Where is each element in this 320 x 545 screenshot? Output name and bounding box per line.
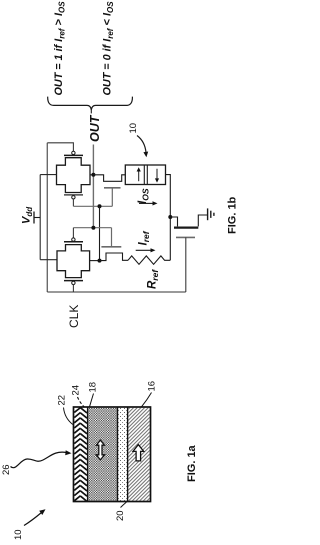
- svg-text:16: 16: [147, 381, 158, 392]
- wire node B column: [99, 206, 101, 260]
- pinned layer arrow: [133, 445, 144, 461]
- wire N3 drain to ground: [198, 215, 207, 226]
- leader 18: [90, 394, 94, 407]
- leader 22: [64, 408, 73, 425]
- node OUT label: [88, 114, 102, 142]
- magnetic junction device box: [125, 165, 165, 185]
- node D junction dot: [168, 215, 172, 219]
- layer boundary 18/20: [117, 407, 119, 502]
- annotation OUT=1 condition: [53, 1, 67, 96]
- gate bar N2: [101, 246, 121, 248]
- gate bubble P2 top: [72, 238, 75, 241]
- wire CLK to P1 top gate: [47, 143, 73, 151]
- wire N3 gate stem to CLK rail: [185, 237, 187, 292]
- svg-text:10: 10: [128, 123, 139, 134]
- stack outer border: [74, 407, 151, 502]
- svg-text:22: 22: [57, 395, 68, 406]
- bottom CLK rail: [47, 291, 186, 293]
- gate bar P2 bottom: [64, 280, 83, 282]
- cross transistor pair P2: [57, 245, 90, 278]
- svg-text:FIG. 1a: FIG. 1a: [186, 444, 198, 482]
- leader 10 arrow: [24, 513, 42, 526]
- wire P1 drain arm to node A: [90, 174, 93, 176]
- label 20: [115, 510, 126, 521]
- label CLK: [67, 305, 81, 328]
- wire device to sense node: [166, 175, 171, 261]
- wire N2 gate stem: [111, 228, 113, 246]
- wire CLK vertical rail: [46, 143, 48, 292]
- layer boundary 22/18: [87, 407, 89, 502]
- resistor Rref zigzag: [128, 256, 170, 264]
- device pinned layer arrow (down): [156, 169, 158, 181]
- cross transistor pair P1: [57, 158, 91, 193]
- arrow Iref: [136, 249, 153, 251]
- layer 22 hatched region: [74, 408, 87, 501]
- leader 10 to device: [137, 136, 146, 153]
- leader 26 squiggle arrow: [11, 452, 67, 468]
- gate bubble P1 bottom: [72, 196, 75, 199]
- label 10 (device): [128, 123, 139, 134]
- svg-text:26: 26: [1, 464, 12, 475]
- wire P1 bottom gate to node B: [72, 199, 74, 206]
- svg-text:FIG. 1b: FIG. 1b: [227, 196, 239, 234]
- brace: [48, 97, 133, 110]
- Vdd terminal bar: [33, 212, 35, 224]
- free layer double arrow: [96, 440, 104, 460]
- wire node A to N1 channel: [93, 175, 125, 182]
- svg-text:CLK: CLK: [67, 305, 81, 328]
- transistor N3 gate bar: [176, 236, 195, 238]
- wire N1 gate stem: [111, 188, 113, 207]
- node A junction dot: [91, 173, 95, 177]
- arrow IOS: [139, 202, 155, 204]
- svg-text:OUT = 0 if Iref < IOS: OUT = 0 if Iref < IOS: [102, 1, 116, 96]
- svg-text:OUT = 1 if Iref > IOS: OUT = 1 if Iref > IOS: [53, 1, 67, 96]
- label Rref: [147, 269, 161, 289]
- label 26: [1, 464, 12, 475]
- wire node A2 horizontal (cross-couple to P2 gates): [73, 227, 111, 229]
- leader 24 dashed: [78, 397, 85, 407]
- label 16: [147, 381, 158, 392]
- gate bar N1: [104, 187, 121, 189]
- leader 16: [142, 393, 152, 407]
- node C junction dot: [98, 259, 102, 263]
- wire P2 source arm: [40, 259, 57, 261]
- node B junction dot: [98, 204, 102, 208]
- svg-text:24: 24: [71, 385, 82, 396]
- label 18: [88, 382, 99, 393]
- annotation OUT=0 condition: [102, 1, 116, 96]
- leader 20: [121, 502, 127, 508]
- Vdd terminal tick: [34, 217, 40, 219]
- label Vdd: [21, 206, 35, 224]
- svg-text:OUT: OUT: [88, 114, 102, 142]
- label IOS: [137, 188, 151, 204]
- transistor N3 channel bar: [174, 227, 198, 229]
- layer 18 stipple region: [88, 408, 117, 501]
- svg-text:10: 10: [13, 529, 24, 540]
- wire P1 source arm: [40, 174, 56, 176]
- gate bar P2 top: [64, 241, 83, 243]
- layer 20 sparse region: [118, 408, 127, 501]
- label 24: [71, 385, 82, 396]
- layer 16 hatch region: [128, 408, 149, 501]
- label FIG. 1b: [227, 196, 239, 234]
- gate bar P1 top: [64, 154, 83, 156]
- wire P2 bottom gate to CLK rail: [72, 285, 74, 292]
- label 22: [57, 395, 68, 406]
- device inner layer lines: [144, 165, 147, 185]
- wire node C to N2 channel to resistor: [100, 253, 129, 261]
- wire P2 drain arm: [90, 260, 100, 262]
- wire node B horizontal: [73, 205, 112, 207]
- wire P2 top gate riser: [72, 228, 74, 238]
- wire OUT column: [92, 145, 94, 228]
- label FIG. 1a: [186, 444, 198, 482]
- transistor N3 source wire: [170, 217, 177, 226]
- label Iref: [138, 230, 152, 245]
- layer boundary 20/16: [127, 407, 129, 502]
- label 10 (stack): [13, 529, 24, 540]
- device free layer arrow (up): [138, 170, 140, 182]
- gate bubble P2 bottom: [72, 281, 75, 284]
- ground symbol: [207, 208, 209, 220]
- gate bar P1 bottom: [64, 194, 83, 196]
- node A2 junction dot: [91, 226, 95, 230]
- wire Vdd rail: [39, 175, 41, 260]
- svg-text:18: 18: [88, 382, 99, 393]
- gate bubble P1 top: [72, 151, 75, 154]
- svg-text:20: 20: [115, 510, 126, 521]
